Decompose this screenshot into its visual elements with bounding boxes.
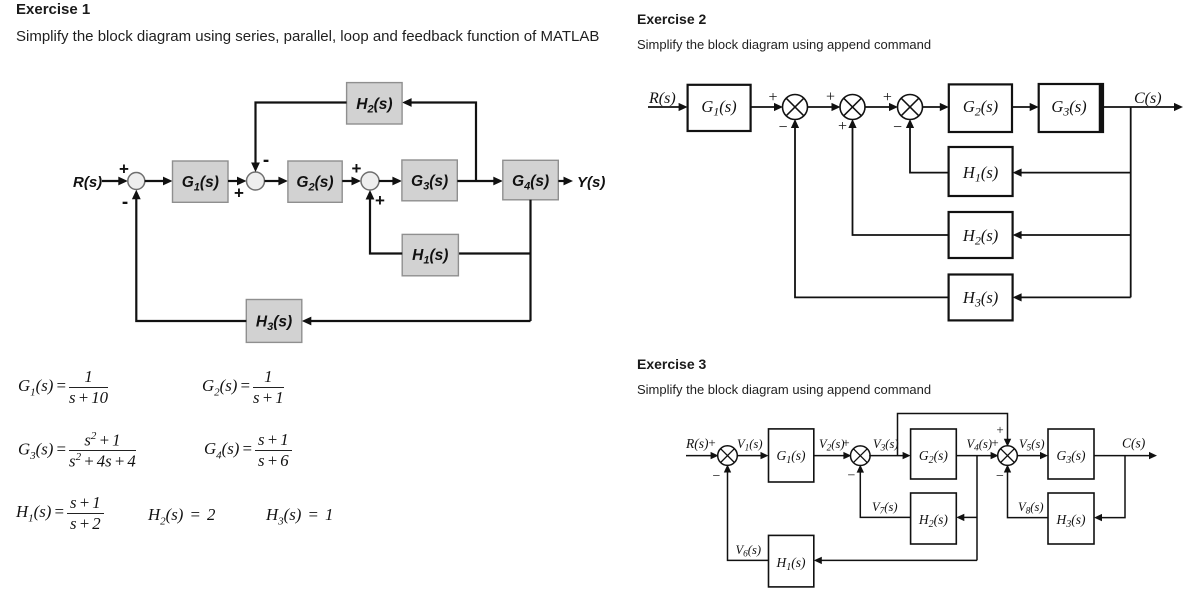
wire H3 output up into S3 bottom: [1004, 465, 1048, 518]
wire G4 bottom tap down: [529, 200, 531, 321]
block H1: [949, 147, 1013, 196]
wire into H1 right: [1013, 169, 1131, 177]
wire G1 to summing junction S2: [228, 177, 247, 186]
block H2: [949, 212, 1013, 258]
Exercise 1 title: [16, 1, 90, 18]
summing junction S1: [128, 173, 145, 190]
summing junction S1: [783, 95, 808, 120]
block H2: [911, 493, 957, 544]
block G3 with thick right edge: [1039, 84, 1103, 132]
wire G1 to summing junction S1: [751, 103, 783, 111]
svg-text:−: −: [996, 469, 1004, 484]
svg-text:V6(s): V6(s): [736, 543, 762, 560]
block H1: [402, 234, 458, 275]
block G2: [949, 84, 1012, 132]
Exercise 2 subtitle: [637, 37, 931, 52]
wire R(s) to summing junction S1: [102, 177, 128, 186]
block G3: [1048, 429, 1094, 479]
svg-text:+: +: [842, 435, 849, 450]
Exercise 3 title: [637, 356, 706, 372]
Exercise 3 subtitle: [637, 382, 931, 397]
svg-text:V2(s): V2(s): [819, 437, 845, 454]
wire H2 output up into S2: [848, 119, 948, 235]
svg-text:V3(s): V3(s): [873, 437, 899, 454]
wire G1 to S2: [814, 452, 852, 459]
wire S1 to G1: [145, 177, 173, 186]
wire into H2 right: [1013, 231, 1131, 239]
wire H1 output up into S3: [366, 190, 403, 254]
wire S2 to S3: [865, 103, 899, 111]
wire S1 to G1: [737, 452, 769, 459]
svg-text:V1(s): V1(s): [737, 437, 763, 454]
wire bottom into H1 right: [814, 557, 977, 564]
block G4: [503, 160, 559, 200]
block G3: [402, 160, 457, 201]
wire H1 output up into S3: [906, 119, 949, 173]
block G2: [911, 429, 957, 479]
Exercise 1 subtitle: [16, 28, 599, 45]
block H3: [949, 275, 1013, 321]
Exercise 1 formulas: [18, 368, 108, 406]
svg-text:V7(s): V7(s): [872, 500, 898, 517]
wire node C down into H3 right: [1094, 456, 1125, 522]
wire R(s) into S1: [686, 452, 719, 459]
wire S3 to G3: [379, 177, 402, 186]
svg-text:+: +: [708, 435, 715, 450]
wire G4 to output Y(s): [558, 177, 573, 186]
svg-text:V5(s): V5(s): [1019, 437, 1045, 454]
summing junction S1: [718, 446, 738, 466]
wire H1 output up into S1 bottom: [724, 465, 769, 561]
wire G2 to S3 with node V4: [956, 452, 998, 459]
wire H2 output down into S2: [251, 103, 347, 173]
svg-text:−: −: [848, 469, 856, 484]
wire S3 to G3: [1017, 452, 1049, 459]
svg-text:−: −: [713, 469, 721, 484]
wire H3 output up into S1: [132, 190, 246, 321]
wire into H3 right: [1013, 293, 1131, 301]
block H3: [1048, 493, 1094, 544]
wire into H2 right: [956, 514, 977, 521]
feedback vertical wire from node B: [1130, 107, 1132, 297]
wire H3 output up into S1: [791, 119, 949, 297]
block G1: [769, 429, 814, 482]
block H1: [769, 535, 814, 587]
svg-text:C(s): C(s): [1122, 436, 1146, 451]
wire bottom into H3 right: [302, 317, 531, 326]
wire H2 output up into S2 bottom: [857, 465, 911, 518]
svg-text:+: +: [991, 435, 998, 450]
svg-text:R(s): R(s): [685, 436, 709, 451]
Exercise 2 title: [637, 11, 706, 27]
summing junction S3: [898, 95, 923, 120]
summing junction S3: [998, 446, 1018, 466]
wire S1 to S2: [807, 103, 841, 111]
block G1: [688, 85, 751, 131]
summing junction S2: [840, 95, 865, 120]
wire node V4 down tap: [976, 456, 978, 561]
wire G3 to output with node C: [1094, 452, 1157, 459]
wire G3 to G4 with node A: [457, 177, 503, 186]
wire G3 to output C(s) with node B: [1103, 103, 1183, 111]
wire R(s) into G1: [648, 103, 688, 111]
svg-text:V8(s): V8(s): [1018, 500, 1044, 517]
wire S2 to G2: [265, 177, 288, 186]
block G2: [288, 161, 342, 202]
block G1: [173, 161, 229, 202]
wire G2 to summing junction S3: [342, 177, 361, 186]
wire S2 to G2 with node V3: [869, 452, 910, 459]
summing junction S3: [361, 172, 379, 190]
wire node A up and into H2: [402, 98, 476, 181]
feedforward wire V3 node over G2 down into S3 top: [898, 414, 1012, 456]
wire S3 to G2: [922, 103, 949, 111]
svg-text:V4(s): V4(s): [967, 437, 993, 454]
wire G2 to G3: [1012, 103, 1039, 111]
summing junction S2: [247, 172, 265, 190]
block H3: [246, 300, 301, 343]
wire branch into H1 right: [458, 252, 530, 254]
block H2: [347, 83, 403, 124]
summing junction S2: [851, 446, 871, 466]
